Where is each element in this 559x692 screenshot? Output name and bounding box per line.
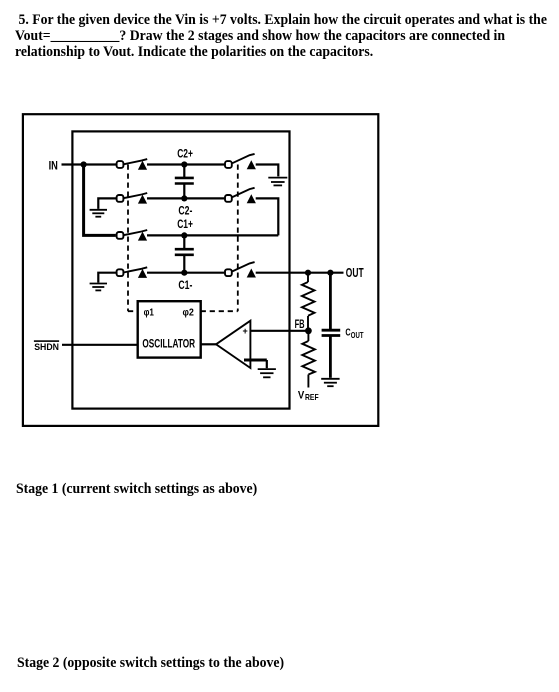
node C2- dot — [181, 195, 187, 201]
label C1- — [178, 280, 192, 292]
svg-text:REF: REF — [305, 392, 319, 402]
ground (row1 right) — [268, 178, 287, 186]
wire comparator minus to ground — [244, 360, 267, 368]
wire row2 S4 down to row3 — [256, 198, 279, 235]
capacitor C2 — [175, 165, 194, 199]
node C1- dot — [181, 270, 187, 276]
node C1+ dot — [181, 232, 187, 238]
label FB — [295, 317, 305, 331]
op-amp comparator U2 — [216, 321, 250, 368]
wire row2 S3 to C2- node — [147, 197, 184, 199]
wire FB to comparator plus input — [250, 330, 308, 332]
label SHDN (with overline) — [34, 340, 59, 352]
node IN junction dot — [81, 161, 87, 167]
switch S4 (row2 right, open) — [225, 188, 256, 203]
svg-text:C1-: C1- — [178, 280, 192, 292]
label OSCILLATOR — [142, 337, 195, 351]
wire oscillator output to comparator — [201, 343, 216, 345]
node COUT top dot — [327, 270, 333, 276]
outer diagram border box — [23, 114, 378, 426]
wire IN drop to row3 — [84, 166, 116, 236]
wire IN lead — [62, 163, 84, 165]
svg-text:IN: IN — [49, 159, 58, 173]
question text — [15, 13, 559, 60]
ground stub (row4 left) — [90, 273, 116, 291]
label VREF — [298, 389, 319, 401]
svg-text:C2-: C2- — [178, 205, 192, 217]
wire row2 node to S4 — [184, 197, 224, 199]
svg-text:V: V — [298, 389, 305, 401]
wire row3 node to right riser — [184, 234, 278, 236]
switch S6 (row4 left, closed) — [117, 267, 148, 278]
switch S5 (row3 left, closed) — [117, 230, 148, 241]
svg-text:φ2: φ2 — [183, 306, 195, 318]
switch S3 (row2 left, closed) — [117, 193, 148, 204]
svg-text:C1+: C1+ — [177, 219, 193, 231]
label COUT — [345, 327, 364, 340]
switch S7 (row4 right, open) — [225, 262, 256, 277]
wire SHDN to oscillator — [62, 344, 138, 346]
capacitor COUT — [322, 273, 341, 378]
svg-text:φ1: φ1 — [144, 306, 154, 318]
label C2+ — [177, 149, 193, 161]
wire IN node to S1 — [84, 163, 116, 165]
ground (COUT) — [321, 379, 339, 386]
svg-text:FB: FB — [295, 317, 305, 331]
stage 2 caption — [17, 656, 284, 672]
resistor R1 — [302, 273, 315, 331]
ground stub (row2 left) — [90, 198, 116, 216]
oscillator U1 box — [138, 301, 201, 357]
label OUT — [346, 266, 364, 280]
label phi2 — [183, 306, 195, 318]
label C2- — [178, 205, 192, 217]
node C2+ dot — [181, 161, 187, 167]
node R1 top dot — [305, 270, 311, 276]
wire row3 S5 to C1+ node — [147, 234, 184, 236]
wire OUT line — [256, 272, 344, 274]
stage 1 caption — [16, 482, 257, 498]
svg-text:+: + — [243, 326, 248, 336]
wire row1 S2 to ground — [256, 165, 279, 177]
wire row1 node to S2 — [184, 163, 224, 165]
wire row4 S6 to C1- node — [147, 272, 184, 274]
capacitor C1 — [175, 235, 194, 272]
ground (comparator) — [258, 369, 276, 377]
label phi1 — [144, 306, 154, 318]
switch S1 (row1 left, closed) — [117, 159, 148, 170]
svg-text:C2+: C2+ — [177, 149, 193, 161]
resistor R2 — [302, 331, 315, 388]
label C1+ — [177, 219, 193, 231]
svg-text:SHDN: SHDN — [34, 342, 59, 352]
phase line phi2 (dashed) — [201, 165, 238, 312]
phase line phi1 (dashed) — [128, 165, 138, 312]
wire row1 S1 to C2+ node — [147, 163, 184, 165]
svg-text:OSCILLATOR: OSCILLATOR — [142, 337, 195, 351]
svg-text:OUT: OUT — [351, 330, 364, 340]
IC inner box — [72, 131, 289, 408]
node FB dot — [305, 327, 312, 334]
wire row4 node to S7 — [184, 272, 224, 274]
node IN label — [49, 159, 58, 173]
svg-text:OUT: OUT — [346, 266, 364, 280]
switch S2 (row1 right, open) — [225, 154, 256, 169]
